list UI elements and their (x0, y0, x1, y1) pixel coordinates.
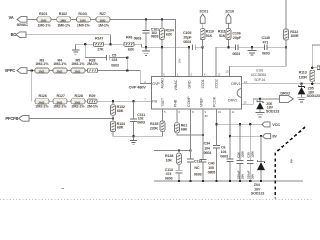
svg-text:C105: C105 (183, 31, 191, 35)
svg-text:PCOK: PCOK (212, 96, 216, 107)
connector VA (80VAC input) (9, 15, 29, 27)
svg-text:PFCFB: PFCFB (5, 116, 18, 121)
svg-text:10K: 10K (166, 158, 173, 162)
ground bus junction dots (178, 180, 263, 183)
svg-text:20pF: 20pF (233, 36, 242, 40)
node C101 bottom / ground (145, 46, 148, 49)
node R132 top (112, 100, 115, 103)
zener Z04 26V SOD123 (251, 136, 265, 195)
svg-text:0603: 0603 (151, 35, 159, 39)
connector DRV2 (280, 91, 294, 103)
pad square (317, 66, 320, 70)
wire VA to R101 (27, 18, 37, 20)
node 8V corner (229, 135, 232, 138)
zener Z06 18V SOD123 (256, 99, 279, 114)
node VREF wire junction (202, 134, 205, 137)
bottom pin numbers (164, 110, 235, 114)
node C25 top (249, 123, 252, 126)
svg-text:SOD123: SOD123 (307, 94, 320, 98)
node C5 tap (84, 43, 87, 46)
svg-text:1M0: 1M0 (60, 18, 66, 22)
svg-text:0603: 0603 (262, 52, 270, 56)
svg-text:12: 12 (217, 72, 221, 76)
ground below sense net (142, 47, 150, 55)
svg-text:VREF: VREF (199, 97, 203, 107)
ground below Z06 (255, 112, 264, 117)
svg-text:51K: 51K (206, 34, 213, 38)
wire 8V rail (230, 135, 263, 137)
svg-text:0603: 0603 (134, 36, 142, 40)
stray mark (62, 187, 64, 189)
svg-text:0603: 0603 (194, 172, 202, 176)
wire VCC rail (217, 123, 263, 125)
capacitor C113 474 0603 (165, 164, 183, 181)
node C5 corner (126, 56, 129, 59)
wire AGND pin vertical (161, 47, 163, 76)
svg-text:R27: R27 (100, 12, 106, 16)
node VA/R104 junction (161, 18, 164, 21)
svg-text:51K: 51K (219, 34, 226, 38)
svg-text:13: 13 (243, 101, 247, 105)
svg-text:80VAC: 80VAC (17, 22, 29, 27)
resistor R3 2M2 (35, 58, 49, 73)
svg-text:VINAC: VINAC (174, 79, 178, 90)
wire R103-R27 (90, 18, 96, 20)
capacitor C40 105 0805 on VREF (200, 109, 216, 181)
resistor R127 2M2 (53, 94, 67, 108)
connector BO (11, 32, 26, 38)
wire local ground net (113, 135, 163, 137)
svg-text:2M2-1%: 2M2-1% (72, 104, 86, 108)
svg-text:R126: R126 (39, 94, 47, 98)
svg-text:GND: GND (187, 80, 191, 88)
svg-text:223: 223 (112, 58, 118, 62)
svg-text:C34: C34 (204, 142, 211, 146)
wire DRV2 output (242, 99, 280, 104)
node R138 top (178, 149, 181, 152)
resistor R27 1M0 (96, 12, 110, 27)
wire R4-R5 (67, 70, 71, 72)
resistor R102 1M0 (57, 12, 71, 27)
svg-text:0603: 0603 (165, 177, 173, 181)
svg-text:ZCD2: ZCD2 (214, 79, 218, 88)
resistor R61 68K on COMP (175, 109, 188, 133)
connector PFCFB (5, 116, 29, 122)
node Z04 tap (260, 135, 263, 138)
svg-text:R29: R29 (89, 94, 95, 98)
resistor R28 2M0 (87, 58, 99, 72)
svg-text:1M0-1%: 1M0-1% (77, 23, 91, 27)
resistor R135 220K (150, 109, 165, 137)
capacitor C5 223 0603 branch (85, 44, 127, 67)
resistor R126 2M2 (35, 94, 49, 108)
svg-text:R101: R101 (39, 12, 47, 16)
wire VA sense line to VINAC corner (110, 19, 176, 76)
wire DRV1 output (242, 83, 320, 85)
node PFCFB junction (112, 117, 115, 120)
svg-text:1M0-1%: 1M0-1% (38, 23, 52, 27)
svg-text:U101: U101 (256, 69, 264, 73)
svg-text:R127: R127 (57, 94, 65, 98)
ground below node (247, 47, 256, 55)
svg-text:68K: 68K (181, 127, 188, 131)
svg-text:2C01: 2C01 (199, 9, 209, 14)
wire R101-R102 (51, 18, 57, 20)
svg-text:0603: 0603 (111, 64, 119, 68)
wire ground to R147 (76, 43, 94, 45)
svg-text:0603: 0603 (232, 52, 240, 56)
resistor R134 68K (111, 121, 126, 136)
wire ZCD1 pin vertical (202, 47, 204, 76)
top pin numbers (163, 72, 221, 76)
resistor R147 27K (93, 36, 104, 51)
resistor R113 120R (299, 70, 315, 84)
resistor R138 10K (165, 151, 181, 165)
node R113 bottom (311, 83, 314, 86)
svg-text:1206: 1206 (240, 151, 244, 158)
svg-text:AGND: AGND (160, 78, 164, 89)
svg-text:SOP-16: SOP-16 (254, 78, 265, 82)
node R104 bottom (161, 46, 164, 49)
wire GND pin vertical (188, 47, 190, 76)
op-amp U101 UCC28063 SOP-16 body (151, 77, 241, 109)
node BO junction (109, 43, 112, 46)
capacitor C101 102 0603 (143, 19, 160, 47)
svg-text:0603: 0603 (137, 121, 145, 125)
page split dashed line (275, 127, 305, 199)
svg-text:15: 15 (225, 69, 229, 73)
connector 2C10 (225, 9, 234, 29)
svg-text:471: 471 (263, 41, 269, 45)
svg-text:UCC28063: UCC28063 (251, 73, 266, 77)
capacitor C6 104 0603 (220, 145, 233, 161)
svg-text:120R: 120R (299, 76, 308, 80)
node C114 top (189, 149, 192, 152)
svg-text:2M2: 2M2 (75, 70, 81, 74)
svg-text:2M2-1%: 2M2-1% (36, 104, 50, 108)
wire VPPC node (27, 70, 35, 72)
wire R61 bottom to VREF net (177, 133, 203, 135)
node C26 top (239, 123, 242, 126)
svg-text:1M0: 1M0 (41, 18, 47, 22)
capacitor C105 20pF 0603 (183, 31, 203, 50)
svg-text:10: 10 (218, 110, 222, 114)
svg-text:OVP 480V: OVP 480V (129, 85, 147, 90)
svg-text:SOD123: SOD123 (266, 110, 279, 114)
svg-text:2M-1%: 2M-1% (87, 104, 99, 108)
svg-text:NC: NC (194, 166, 200, 170)
resistor R111 51K (218, 29, 231, 48)
svg-text:TSET: TSET (161, 97, 165, 107)
wire ZCD2 pin vertical (215, 47, 217, 77)
svg-text:0603: 0603 (183, 40, 191, 44)
svg-text:1AV: 1AV (177, 58, 181, 63)
wire R5-R28 (85, 70, 88, 72)
node R112 bottom junction (285, 46, 288, 49)
connector VPPC (5, 68, 27, 74)
svg-text:1206: 1206 (251, 151, 255, 158)
svg-text:VCC: VCC (272, 122, 280, 127)
wire PFCFB to divider mid (29, 117, 113, 119)
wire C5 drop to OVP row (126, 58, 128, 71)
capacitor C111 102 0603 (130, 101, 145, 136)
node VCC corner (215, 123, 218, 126)
wire R43 to sense net with jog (134, 44, 189, 47)
node mid gnd tap (251, 46, 254, 49)
svg-text:COMP: COMP (187, 96, 191, 107)
svg-text:105: 105 (208, 166, 214, 170)
wire R126-R127 (49, 100, 53, 102)
svg-text:27K: 27K (97, 48, 104, 52)
capacitor C114 NC 0603 on pin 8 (187, 109, 203, 181)
resistor R29 2M0 (87, 94, 99, 108)
svg-text:2C10: 2C10 (225, 9, 234, 14)
node C111 top (132, 100, 135, 103)
resistor R101 1M0 (37, 12, 51, 27)
svg-text:C145: C145 (262, 36, 270, 40)
wire R147-R43 (104, 43, 124, 45)
ground below Z05 (297, 97, 306, 102)
resistor R110 51K (200, 29, 214, 48)
wire loop to pin 15 (230, 47, 287, 76)
label U101 UCC28063 SOP-16 (251, 69, 266, 82)
svg-text:2M2-1%: 2M2-1% (36, 62, 50, 66)
svg-text:2M2: 2M2 (39, 70, 45, 74)
wire FB row to IC (97, 100, 151, 102)
resistor R103 1M0 (76, 12, 90, 27)
capacitor C25 1206 (247, 124, 255, 181)
svg-text:1M0: 1M0 (80, 18, 86, 22)
svg-text:R102: R102 (59, 12, 67, 16)
connector 2C01 (199, 9, 209, 29)
zener Z05 18V SOD123 (298, 84, 320, 98)
svg-text:100R: 100R (290, 34, 299, 38)
svg-text:C106: C106 (232, 32, 240, 36)
wire VPPC down to row2 (31, 71, 33, 102)
svg-text:C40: C40 (208, 162, 214, 166)
svg-text:C6: C6 (221, 145, 226, 149)
svg-text:8V: 8V (272, 134, 277, 139)
svg-text:62K: 62K (128, 48, 135, 52)
svg-text:PHB: PHB (173, 99, 177, 107)
svg-text:2M-1%: 2M-1% (87, 62, 99, 66)
node VA/C101 junction (145, 18, 148, 21)
connector 8V (263, 134, 278, 139)
capacitor C34 104 0603 (204, 142, 220, 155)
svg-text:R128: R128 (75, 94, 83, 98)
node Z05 junction (300, 83, 303, 86)
wire R128-R29 (85, 100, 88, 102)
svg-text:0603: 0603 (220, 155, 228, 159)
svg-text:VPPC: VPPC (5, 68, 16, 73)
svg-text:DRV1: DRV1 (231, 82, 240, 86)
wire gate feed from right edge (312, 45, 320, 68)
svg-text:VA: VA (9, 15, 14, 20)
ground at R147 left (72, 44, 79, 54)
connector VCC (262, 122, 280, 127)
bottom dotted border (0, 198, 313, 200)
wire R102-R103 (71, 18, 77, 20)
wire VCC pin to rail (216, 109, 218, 181)
ground below divider (130, 136, 137, 144)
svg-text:1M0-1%: 1M0-1% (57, 23, 71, 27)
svg-text:SOD123: SOD123 (251, 192, 264, 196)
resistor R5 2M2 (71, 58, 85, 73)
capacitor C106 20pF 0603 (232, 32, 241, 57)
svg-text:14: 14 (244, 80, 248, 84)
svg-text:20pF: 20pF (183, 36, 192, 40)
capacitor C145 471 0603 (262, 36, 287, 56)
svg-text:1M0: 1M0 (100, 18, 106, 22)
wire 8V pin to rail (229, 109, 231, 181)
wire BO to R147/R43 junction (26, 35, 111, 45)
resistor R4 2M2 (53, 58, 67, 73)
wire ground bus (154, 180, 303, 182)
node Z06 junction (259, 98, 262, 101)
svg-text:0805: 0805 (208, 171, 216, 175)
svg-text:68K: 68K (117, 126, 124, 130)
wire R127-R128 (67, 100, 71, 102)
wire R3-R4 (49, 70, 53, 72)
resistor R132 68K (111, 101, 125, 121)
svg-text:R103: R103 (78, 12, 86, 16)
svg-text:1M-1%: 1M-1% (98, 23, 110, 27)
node VPPC split (31, 69, 34, 72)
resistor R112 100R from top edge (284, 0, 299, 47)
svg-text:ZCD1: ZCD1 (201, 79, 205, 88)
wire C106 to gnd node (238, 46, 264, 48)
svg-text:2M2-1%: 2M2-1% (54, 62, 68, 66)
resistor R43 62K (124, 35, 135, 51)
svg-text:R113: R113 (299, 71, 307, 75)
svg-text:11: 11 (232, 110, 235, 114)
capacitor C26 1206 (236, 124, 244, 181)
svg-text:R43: R43 (126, 35, 132, 39)
wire OVP row to corner (98, 71, 152, 84)
node R113 top (311, 66, 314, 69)
svg-text:DRV2: DRV2 (228, 98, 237, 102)
svg-text:220K: 220K (150, 126, 159, 130)
node ground stub (132, 135, 135, 138)
svg-text:OVP: OVP (152, 82, 160, 86)
node GND pin tap (188, 46, 191, 49)
resistor R104 62K vertical (160, 19, 175, 47)
svg-text:FB: FB (152, 100, 157, 104)
svg-text:2M2-1%: 2M2-1% (54, 104, 68, 108)
svg-text:62K: 62K (166, 32, 173, 36)
svg-text:6V: 6V (205, 114, 209, 118)
resistor R128 2M2 (71, 94, 85, 108)
wire COMP lateral (154, 150, 191, 152)
svg-text:68K: 68K (117, 109, 124, 113)
node ZCD1 junction (201, 46, 204, 49)
node R111 bottom (227, 46, 230, 49)
svg-text:0603: 0603 (204, 151, 212, 155)
wire ZCD2 net (216, 46, 235, 48)
svg-text:2M2-1%: 2M2-1% (72, 62, 86, 66)
stub to pad (312, 67, 317, 69)
svg-text:DRV2: DRV2 (280, 91, 291, 96)
svg-text:2M2: 2M2 (57, 70, 63, 74)
svg-text:C114: C114 (194, 160, 203, 164)
svg-text:R147: R147 (95, 36, 103, 40)
node C5 row junction (126, 69, 129, 72)
